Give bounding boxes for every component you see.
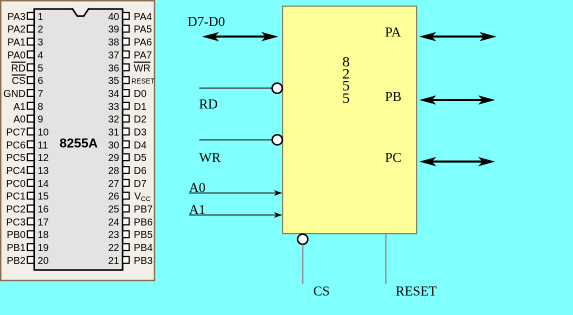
svg-text:25: 25 [108,205,120,216]
svg-text:D5: D5 [134,153,147,164]
svg-text:D3: D3 [134,128,147,139]
svg-text:13: 13 [38,166,50,177]
svg-text:D7-D0: D7-D0 [188,14,226,29]
svg-text:PC7: PC7 [6,128,26,139]
svg-text:7: 7 [38,89,44,100]
svg-text:PC: PC [385,150,402,165]
svg-text:PB5: PB5 [134,230,153,241]
svg-text:PB7: PB7 [134,205,153,216]
svg-text:36: 36 [108,63,120,74]
svg-text:D2: D2 [134,115,147,126]
svg-text:PB1: PB1 [7,243,26,254]
svg-text:10: 10 [38,128,50,139]
svg-text:28: 28 [108,166,120,177]
svg-text:RESET: RESET [131,79,155,86]
svg-text:PA: PA [385,25,401,40]
svg-text:D0: D0 [134,89,147,100]
svg-text:PB: PB [385,89,402,104]
svg-text:21: 21 [108,256,120,267]
svg-text:PC3: PC3 [6,217,26,228]
svg-text:PB6: PB6 [134,217,153,228]
svg-text:D4: D4 [134,140,147,151]
svg-text:PA1: PA1 [7,38,26,49]
svg-text:PA7: PA7 [134,50,153,61]
svg-text:8255A: 8255A [60,136,99,151]
svg-text:27: 27 [108,179,120,190]
svg-text:CS: CS [12,76,26,87]
svg-text:PA4: PA4 [134,12,153,23]
svg-text:PB3: PB3 [134,256,153,267]
svg-text:35: 35 [108,76,120,87]
svg-text:19: 19 [38,243,50,254]
svg-text:A1: A1 [189,202,206,217]
svg-text:33: 33 [108,102,120,113]
svg-text:2: 2 [38,25,44,36]
svg-text:4: 4 [38,50,44,61]
svg-text:PB0: PB0 [7,230,26,241]
svg-text:RESET: RESET [396,284,438,299]
svg-text:A1: A1 [13,102,26,113]
svg-text:PC0: PC0 [6,179,26,190]
svg-text:WR: WR [199,150,221,165]
svg-text:15: 15 [38,192,50,203]
svg-text:PA5: PA5 [134,25,153,36]
svg-text:17: 17 [38,217,50,228]
svg-text:40: 40 [108,12,120,23]
svg-text:14: 14 [38,179,50,190]
svg-text:39: 39 [108,25,120,36]
svg-text:26: 26 [108,192,120,203]
svg-text:5: 5 [342,91,350,107]
svg-text:PC5: PC5 [6,153,26,164]
svg-text:3: 3 [38,38,44,49]
svg-text:16: 16 [38,205,50,216]
svg-text:D1: D1 [134,102,147,113]
svg-text:1: 1 [38,12,44,23]
svg-text:RD: RD [11,63,25,74]
svg-text:32: 32 [108,115,120,126]
svg-text:8: 8 [38,102,44,113]
svg-text:PC2: PC2 [6,205,26,216]
svg-text:PA6: PA6 [134,38,153,49]
svg-text:38: 38 [108,38,120,49]
svg-text:24: 24 [108,217,120,228]
svg-text:PC1: PC1 [6,192,26,203]
svg-text:20: 20 [38,256,50,267]
svg-text:CS: CS [313,284,330,299]
svg-text:34: 34 [108,89,120,100]
svg-text:A0: A0 [189,180,206,195]
svg-text:31: 31 [108,128,120,139]
svg-text:PB4: PB4 [134,243,153,254]
svg-text:PC6: PC6 [6,140,26,151]
svg-text:30: 30 [108,140,120,151]
svg-text:GND: GND [3,89,25,100]
svg-text:37: 37 [108,50,120,61]
svg-text:PA0: PA0 [7,50,26,61]
svg-text:11: 11 [38,140,49,151]
svg-text:PB2: PB2 [7,256,26,267]
svg-text:PA3: PA3 [7,12,26,23]
svg-text:23: 23 [108,230,120,241]
svg-text:A0: A0 [13,115,26,126]
svg-text:12: 12 [38,153,50,164]
svg-text:22: 22 [108,243,120,254]
svg-text:9: 9 [38,115,44,126]
svg-text:5: 5 [38,63,44,74]
svg-text:29: 29 [108,153,120,164]
svg-text:PA2: PA2 [7,25,26,36]
svg-text:D7: D7 [134,179,147,190]
svg-text:PC4: PC4 [6,166,26,177]
svg-text:6: 6 [38,76,44,87]
svg-text:WR: WR [134,63,151,74]
svg-text:18: 18 [38,230,50,241]
svg-text:D6: D6 [134,166,147,177]
svg-text:RD: RD [199,97,218,112]
